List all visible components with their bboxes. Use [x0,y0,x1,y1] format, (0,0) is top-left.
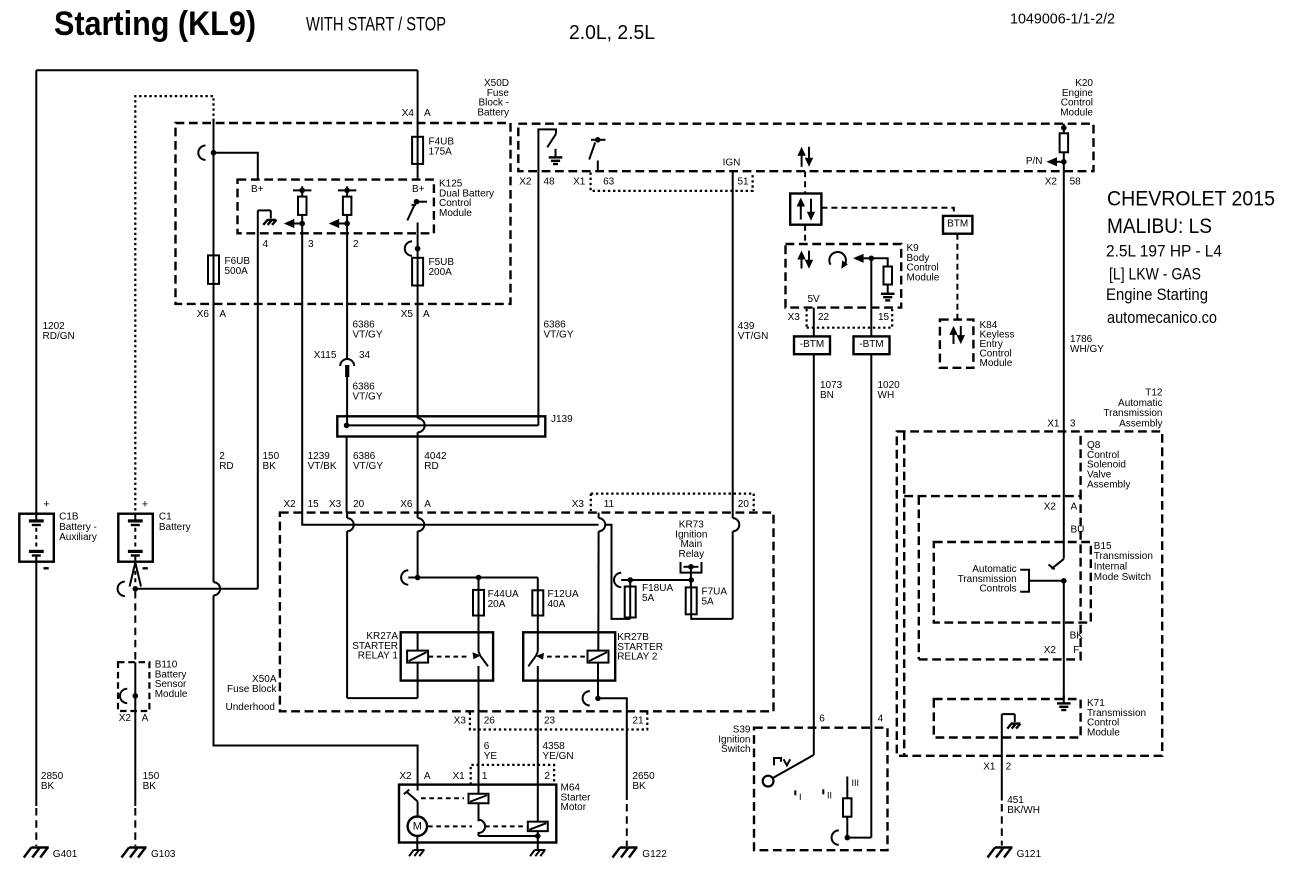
wire 150 BK battery negative to riser [135,588,257,590]
hop arc pin1 wire over dashed line [479,820,486,833]
fuse F6UB 500A [208,255,219,284]
module B110 Battery Sensor Module (dashed box) [118,662,149,711]
svg-text:B+: B+ [412,184,425,195]
svg-text:-BTM: -BTM [859,339,883,350]
svg-text:500A: 500A [225,266,249,277]
KR27A contact [478,616,480,652]
module X50A Fuse Block Underhood (dashed box) [280,513,774,712]
wire 6386 VT/GY from pin 2 down [346,233,348,359]
svg-text:[L] LKW - GAS: [L] LKW - GAS [1109,265,1201,284]
svg-text:X2: X2 [119,713,132,724]
wire 1202 RD/GN vertical to C1B [35,70,37,513]
S39 splice to pin 4 wire [832,830,839,844]
module Q8 Control Solenoid Valve Assembly (dashed box) [904,431,1080,496]
wire 439 VT/GN from pin 51 [732,171,734,512]
wire F7UA bottom to 439 wire [691,614,733,619]
module K125 Dual Battery Control Module (dashed box) [238,180,434,234]
junction F44UA tap [476,575,482,581]
svg-text:Fuse Block: Fuse Block [227,684,277,695]
module T12 Automatic Transmission Assembly (dashed box) [897,431,1162,755]
serial data box with arrows [790,194,821,225]
svg-text:Assembly: Assembly [1119,419,1162,430]
svg-text:A: A [219,309,226,320]
svg-text:Module: Module [1060,108,1093,119]
splice and wire to F18UA / F7UA [614,573,621,587]
svg-text:G103: G103 [151,849,176,860]
wire from X1 3 through Q8 [1063,431,1065,558]
svg-text:X2: X2 [1044,645,1057,656]
fuse F44UA 20A [478,578,480,590]
fusible link symbol below C1 [130,563,141,587]
svg-text:Automatic: Automatic [1118,398,1162,409]
svg-text:WH/GY: WH/GY [1070,344,1104,355]
dashed link serial box to BTM [821,208,953,216]
dashed link serial box down to K9 [804,225,806,244]
KR27A control dashed line [429,656,469,658]
fuse F18UA 5A [629,580,631,587]
svg-text:Starting (KL9): Starting (KL9) [54,5,256,43]
module K9 Body Control Module (dashed box) [786,244,902,308]
svg-text:X3: X3 [329,499,342,510]
svg-text:Switch: Switch [721,744,750,755]
svg-text:Module: Module [439,208,472,219]
module X50D Fuse Block - Battery (dashed box) [176,123,511,304]
wire down to X4 A / F4UB [417,70,419,137]
KR27A coil return to 6386 bus [347,697,418,699]
ECM pin 48 internal switch to ground [538,129,556,171]
T12 inner left edge [903,431,905,755]
dotted connector bracket pins 63-51 [591,173,753,191]
svg-text:51: 51 [738,176,750,187]
svg-text:+: + [43,499,49,511]
wire 6386 below J139 [346,437,348,513]
svg-text:BK: BK [263,461,277,472]
wire 1786 WH/GY from pin 58 [1063,171,1065,431]
svg-text:175A: 175A [429,146,453,157]
S39 resistor to pin 4 [846,777,848,799]
svg-text:4: 4 [263,239,269,250]
bus wire linking pins 15/20/A/11 [302,513,347,525]
svg-text:RD: RD [424,461,438,472]
svg-text:2: 2 [353,239,359,250]
svg-text:IGN: IGN [723,157,741,168]
svg-text:58: 58 [1070,176,1082,187]
svg-text:VT/GY: VT/GY [353,391,383,402]
module M64 Starter Motor box [399,785,556,843]
S39 key symbol [774,758,790,765]
ground G103 [122,848,147,858]
dotted connector bracket X3 [807,309,893,328]
wire 150 BK from pin 4 down [257,233,259,589]
KR27B control dashed line [547,656,587,658]
svg-text:Module: Module [980,358,1013,369]
K9 rotation symbol [829,252,846,266]
ECM P/N output resistor pin 58 [1061,125,1067,131]
svg-text:YE/GN: YE/GN [543,751,574,762]
hop arc of 2 RD wire over 150 BK [214,582,221,595]
K125 resistor pin 2 [338,189,356,191]
svg-text:X1: X1 [983,761,996,772]
splice -BTM box 1 [794,336,830,354]
svg-text:X3: X3 [454,715,467,726]
svg-text:BU: BU [1071,525,1085,536]
KR27B contact [537,616,539,652]
fuse F5UB 200A [412,258,423,286]
ground G121 [988,848,1013,858]
svg-text:21: 21 [632,715,644,726]
svg-text:Assembly: Assembly [1087,480,1130,491]
svg-text:Module: Module [155,689,188,700]
svg-text:Transmission: Transmission [1103,408,1162,419]
M64 solenoid ground [530,850,546,856]
svg-text:automecanico.co: automecanico.co [1107,308,1217,327]
junction block J139 [337,416,545,436]
motor M [408,817,427,836]
wire battery feed top horizontal [36,69,417,71]
wire 1239 VT/BK from pin 3 down [301,233,303,512]
svg-text:+: + [142,499,148,511]
svg-text:200A: 200A [429,267,453,278]
svg-text:P/N: P/N [1026,156,1043,167]
svg-text:20A: 20A [488,599,506,610]
splice below K125 switch [417,233,419,257]
module B15 Transmission Internal Mode Switch (dashed box) [934,542,1091,623]
fuse F7UA 5A [688,577,694,583]
splice junction on 2 RD wire [198,146,205,160]
svg-text:RD/GN: RD/GN [43,331,75,342]
position mark II [822,789,824,794]
B110 internal sensor splice [134,662,136,711]
svg-text:III: III [852,778,860,788]
svg-text:26: 26 [484,715,496,726]
svg-text:2.5L 197 HP - L4: 2.5L 197 HP - L4 [1106,242,1222,261]
svg-text:Motor: Motor [561,802,587,813]
svg-text:G122: G122 [642,849,667,860]
K9 sensor wire pin 15 [870,258,872,336]
svg-text:M: M [413,820,422,832]
svg-text:Relay: Relay [679,549,705,560]
svg-text:BK: BK [632,781,646,792]
splice on fuse feed wire [401,570,408,584]
wire 6 YE to starter [478,711,480,784]
relay KR27B STARTER RELAY 2 box [523,632,615,680]
svg-text:40A: 40A [548,599,566,610]
svg-text:5A: 5A [642,593,655,604]
svg-text:15: 15 [878,312,890,323]
battery C1 [118,514,153,562]
svg-text:BK: BK [143,781,157,792]
KR27A coil [407,651,428,663]
P/N arrow [1047,157,1058,166]
svg-text:BK/WH: BK/WH [1007,805,1040,816]
svg-text:2.0L, 2.5L: 2.0L, 2.5L [569,21,655,44]
M64 contact switch [417,785,419,791]
wire B15 to K71 earth ground [1063,659,1065,699]
svg-text:C1B: C1B [59,511,79,522]
wire 2650 BK to G122 [626,711,628,800]
svg-text:X2: X2 [283,499,296,510]
wire 1073 BN [813,354,815,728]
svg-text:A: A [424,108,431,119]
module K20 Engine Control Module (long dashed box) [518,124,1093,172]
svg-text:-BTM: -BTM [800,339,824,350]
svg-text:22: 22 [818,312,830,323]
svg-text:X2: X2 [1044,502,1057,513]
svg-text:48: 48 [544,176,556,187]
svg-text:6: 6 [819,714,825,725]
wire 1020 WH [870,354,872,728]
svg-text:A: A [423,309,430,320]
wire 6386 VT/GY from ECM pin 48 to J139 [537,171,539,425]
S39 switch arm [813,728,815,755]
wire 150 BK dashed to B110 [134,591,136,662]
fuse F4UB 175A [412,137,423,164]
svg-text:4: 4 [878,714,884,725]
svg-text:X2: X2 [519,176,532,187]
terminal arc pin 11 wire [599,518,606,531]
svg-text:I: I [799,792,802,802]
wire KR27B coil feed from pin 11 [597,531,599,650]
svg-text:X1: X1 [1047,419,1060,430]
B15 mode switch blade [1052,559,1065,569]
svg-text:BK: BK [41,781,55,792]
svg-text:MALIBU: LS: MALIBU: LS [1107,214,1212,238]
wire 2 RD down then right to M64 [214,304,418,785]
svg-text:Battery -: Battery - [59,522,97,533]
svg-text:A: A [424,771,431,782]
svg-text:RELAY 1: RELAY 1 [358,651,399,662]
svg-text:1049006-1/1-2/2: 1049006-1/1-2/2 [1010,12,1115,28]
svg-text:Engine Starting: Engine Starting [1106,285,1208,304]
svg-text:X1: X1 [573,176,586,187]
dotted bracket bottom pin row [470,713,647,730]
K9 5V output wire pin 22 [813,308,815,337]
fuse F12UA 40A [537,578,539,591]
inline connector X115 pin 34 [340,359,354,366]
svg-text:23: 23 [544,715,556,726]
relay KR27A STARTER RELAY 1 box [401,632,493,680]
svg-text:X6: X6 [400,499,413,510]
K125 output arrow pin 3 [284,219,295,228]
svg-text:Controls: Controls [979,584,1016,595]
svg-text:Module: Module [1087,728,1120,739]
wire 2 RD down to F6UB [213,121,215,255]
ground G401 [24,848,49,858]
svg-text:Battery: Battery [477,108,509,119]
svg-text:VT/GY: VT/GY [353,461,383,472]
svg-text:G121: G121 [1017,849,1042,860]
svg-text:Auxiliary: Auxiliary [59,532,97,543]
svg-text:YE: YE [484,751,498,762]
svg-text:11: 11 [604,499,615,510]
transmission controls group dashed box [919,496,1081,659]
M64 dashed line motor to coil2 [428,825,472,827]
svg-text:C1: C1 [159,511,172,522]
ground G122 [613,848,638,858]
svg-text:3: 3 [308,239,314,250]
K125 output arrow pin 2 [329,219,340,228]
svg-text:VT/BK: VT/BK [308,461,337,472]
svg-text:X2: X2 [1045,176,1058,187]
svg-text:34: 34 [359,350,371,361]
K125 internal switch [414,199,420,205]
svg-text:BK: BK [1070,631,1084,642]
position mark I [794,790,796,795]
M64 solenoid coil 1 [478,785,480,794]
M64 solenoid coil 2 [537,785,539,822]
svg-text:X2: X2 [399,771,412,782]
BTM box [943,216,972,234]
svg-text:3: 3 [1070,419,1076,430]
svg-text:T12: T12 [1145,387,1163,398]
wire 4042 RD [417,304,419,418]
svg-text:G401: G401 [53,849,78,860]
svg-text:RD: RD [219,461,233,472]
module K71 Transmission Control Module (dashed box) [934,699,1081,738]
dashed wire to G121 [1001,804,1003,846]
wire 2850 BK below C1B [35,562,37,806]
svg-text:RELAY 2: RELAY 2 [617,652,658,663]
K125 resistor pin 3 [293,189,311,191]
svg-text:BTM: BTM [947,219,968,230]
svg-text:X1: X1 [452,771,465,782]
branch from bus to F18UA bottom [605,525,630,619]
svg-text:20: 20 [738,499,750,510]
svg-text:Battery: Battery [159,522,191,533]
svg-text:5V: 5V [808,294,821,305]
wire 439 terminal arc below pin 20 [733,518,740,531]
K9 pull-up resistor to ground [871,258,887,266]
splice battery negative junction [118,582,125,596]
svg-text:Module: Module [907,273,940,284]
svg-text:2: 2 [544,771,550,782]
ECM data arrows above pin row [797,147,805,156]
dotted bracket X1 pins [471,765,554,785]
svg-text:VT/GN: VT/GN [738,331,769,342]
svg-text:WITH START / STOP: WITH START / STOP [306,14,446,35]
svg-text:B+: B+ [251,184,264,195]
wire F4UB to K125 B+ right [417,164,419,180]
svg-text:X4: X4 [402,108,415,119]
KR27B coil return splice to pin 21 [583,691,590,705]
svg-text:15: 15 [308,499,320,510]
KR27B coil [588,651,609,663]
wire 6386 VT/GY to J139 [346,377,348,425]
svg-text:X5: X5 [401,309,414,320]
svg-text:2: 2 [1006,761,1012,772]
K9 output arrow to sensor wire [853,254,864,263]
svg-text:X115: X115 [314,350,337,361]
M64 motor ground [409,850,425,856]
ECM pin 63 internal switch [591,139,606,141]
svg-text:CHEVROLET 2015: CHEVROLET 2015 [1107,187,1275,211]
svg-text:A: A [1071,502,1078,513]
module S39 Ignition Switch (dashed box) [754,728,888,851]
svg-text:5A: 5A [702,596,715,607]
wire F5UB to X5 A [417,286,419,304]
svg-text:II: II [827,791,832,801]
dashed link BTM to K84 [956,234,958,320]
S39 lock cylinder circle [763,776,774,787]
svg-text:A: A [424,499,431,510]
K125 chassis ground to pin 4 [257,210,259,220]
K71 chassis ground output [1001,714,1003,728]
wire 150 BK to G103 [134,711,136,806]
K9 serial arrows [797,251,805,260]
svg-text:X6: X6 [197,309,210,320]
svg-text:X3: X3 [788,312,801,323]
svg-text:X3: X3 [572,499,585,510]
svg-text:BN: BN [820,390,834,401]
svg-text:1: 1 [482,771,488,782]
svg-text:VT/GY: VT/GY [544,329,574,340]
svg-text:WH: WH [878,390,895,401]
wire branch to K125 B+ left [214,153,258,180]
M64 control dash contact to coil1 [421,797,464,799]
splice -BTM box 2 [854,336,890,354]
wire F6UB to X6 A bottom [213,284,215,304]
svg-text:F: F [1073,645,1079,656]
wire 4358 YE/GN to starter [537,711,539,784]
dotted hidden wire C1 battery to X50D [135,96,213,514]
wire F18UA bottom [629,618,631,619]
svg-text:Underhood: Underhood [226,702,275,713]
svg-text:J139: J139 [551,414,573,425]
dashed data line to serial box [804,171,806,193]
svg-text:VT/GY: VT/GY [353,329,383,340]
battery C1B Battery - Auxiliary [19,514,54,562]
svg-text:Mode Switch: Mode Switch [1094,572,1151,583]
svg-text:20: 20 [353,499,365,510]
module K84 Keyless Entry Control Module (dashed box) [940,320,974,368]
svg-text:A: A [142,713,149,724]
J139 hop arc over 4042 RD wire [418,418,425,432]
svg-text:63: 63 [603,176,615,187]
